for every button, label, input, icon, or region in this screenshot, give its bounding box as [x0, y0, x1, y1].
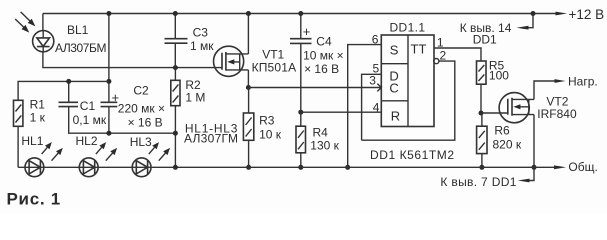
- svg-text:3: 3: [369, 74, 376, 88]
- capacitor C3: [165, 39, 188, 44]
- node VT1 source: [246, 85, 251, 90]
- svg-text:VT1: VT1: [262, 48, 284, 62]
- wire C1 bottom: [69, 107, 176, 134]
- svg-text:220 мк ×: 220 мк ×: [118, 102, 165, 116]
- resistor R1: [14, 100, 23, 126]
- wire C1 top: [68, 81, 70, 102]
- +12 V arrow: [556, 12, 568, 16]
- LED HL2: [79, 142, 117, 177]
- svg-text:DD1: DD1: [473, 33, 497, 47]
- svg-text:10 к: 10 к: [259, 128, 282, 142]
- svg-text:1 М: 1 М: [185, 91, 205, 105]
- svg-text:DD1.1: DD1.1: [390, 21, 426, 35]
- svg-text:DD1 К561ТМ2: DD1 К561ТМ2: [370, 148, 454, 162]
- node VT2 source ground: [532, 165, 537, 170]
- svg-text:10 мк ×: 10 мк ×: [303, 49, 344, 63]
- svg-text:× 16 В: × 16 В: [304, 62, 339, 76]
- wire R3 bottom: [248, 140, 250, 167]
- wire R1 top line: [18, 81, 109, 100]
- node C2 bottom: [106, 131, 111, 136]
- node rail C3: [173, 11, 178, 16]
- node rail VT1: [246, 11, 251, 16]
- wire R2 bottom: [174, 106, 176, 168]
- wire C4 to R input: [301, 111, 382, 113]
- node rail-C2: [106, 11, 111, 16]
- resistor R5: [477, 61, 487, 84]
- wire C3 bottom: [174, 43, 176, 67]
- node rail pin14: [531, 11, 536, 16]
- wire to pin 7: [524, 167, 534, 180]
- wire VT2 source: [533, 115, 535, 168]
- wire S to ground: [348, 45, 382, 168]
- svg-text:100: 100: [489, 69, 509, 83]
- wire R5 bottom: [480, 84, 482, 113]
- svg-text:R6: R6: [494, 124, 510, 138]
- svg-text:C: C: [389, 81, 398, 96]
- wire +12 to C2 plus: [108, 14, 110, 103]
- dynamic input chevron pin 3: [377, 84, 381, 92]
- node R4 ground: [298, 165, 303, 170]
- transistor VT2: [499, 93, 534, 123]
- node R3 ground: [246, 165, 251, 170]
- node S ground: [345, 165, 350, 170]
- wire VT1 drain: [247, 14, 249, 54]
- svg-text:HL1: HL1: [21, 134, 43, 148]
- wire C2 bottom: [108, 107, 110, 134]
- node rail C4: [298, 11, 303, 16]
- svg-text:R4: R4: [313, 126, 329, 140]
- capacitor C4: [290, 14, 312, 113]
- op-amp/flip-flop DD1.1 box: [381, 35, 434, 127]
- svg-text:130 к: 130 к: [310, 139, 339, 153]
- svg-text:× 16 В: × 16 В: [128, 116, 163, 130]
- capacitor C2: [101, 102, 118, 106]
- svg-text:+: +: [303, 24, 311, 39]
- svg-text:TT: TT: [411, 42, 427, 57]
- svg-text:+12 В: +12 В: [569, 7, 605, 22]
- node C2 top tee: [106, 79, 111, 84]
- wire BL1 bottom to VT1 gate: [43, 52, 222, 68]
- LED HL1: [25, 142, 63, 177]
- svg-text:S: S: [390, 43, 399, 58]
- resistor R2: [171, 68, 180, 106]
- common arrow: [554, 165, 566, 169]
- node R5 R6 gate: [479, 111, 484, 116]
- wire D input: [362, 74, 382, 140]
- wire top +12V rail: [43, 13, 556, 15]
- svg-text:820 к: 820 к: [493, 138, 522, 152]
- wire R6 bottom: [481, 154, 483, 168]
- svg-text:АЛ307ГМ: АЛ307ГМ: [184, 132, 238, 146]
- resistor R6: [477, 113, 487, 154]
- wire to pin 14: [523, 14, 533, 28]
- svg-text:C4: C4: [316, 35, 332, 49]
- svg-text:R1: R1: [30, 98, 46, 112]
- inverter bubble pin 2: [434, 59, 439, 64]
- svg-text:Нагр.: Нагр.: [568, 75, 598, 89]
- svg-text:BL1: BL1: [67, 23, 89, 37]
- svg-text:0,1 мк: 0,1 мк: [73, 113, 107, 127]
- svg-text:C2: C2: [133, 84, 149, 98]
- svg-text:HL2: HL2: [76, 134, 98, 148]
- wire R1 bottom: [17, 126, 19, 167]
- svg-text:К выв. 7 DD1: К выв. 7 DD1: [440, 175, 516, 189]
- LED HL3: [132, 142, 170, 177]
- wire R4 bottom: [300, 153, 302, 168]
- svg-text:IRF840: IRF840: [537, 107, 577, 121]
- wire source to C input: [248, 87, 381, 89]
- pin7 arrow: [518, 179, 530, 183]
- capacitor C1: [59, 102, 79, 106]
- node R6 ground: [479, 165, 484, 170]
- wire bottom common rail: [18, 166, 554, 168]
- transistor VT1: [214, 46, 249, 76]
- svg-text:Рис. 1: Рис. 1: [7, 190, 61, 209]
- wire VT2 drain to load: [534, 81, 555, 99]
- wire feedback Q2 to D: [362, 61, 455, 140]
- wire pin1 to R5: [434, 48, 481, 61]
- svg-text:C1: C1: [80, 99, 96, 113]
- svg-text:1 к: 1 к: [30, 111, 46, 125]
- pin14 arrow: [517, 26, 529, 30]
- load arrow: [555, 79, 566, 83]
- svg-text:HL3: HL3: [130, 135, 152, 149]
- photodiode BL1: [15, 12, 54, 52]
- svg-text:КП501А: КП501А: [252, 61, 297, 75]
- wire gate VT2: [481, 112, 508, 114]
- svg-text:R: R: [391, 109, 400, 124]
- wire VT1 source: [247, 70, 249, 88]
- svg-text:4: 4: [373, 101, 380, 115]
- svg-text:1 мк: 1 мк: [190, 39, 214, 53]
- svg-text:C3: C3: [193, 26, 209, 40]
- node R2 C1 bottom: [173, 131, 178, 136]
- svg-text:Общ.: Общ.: [568, 160, 597, 174]
- resistor R4: [296, 112, 306, 153]
- wire C3 top: [174, 14, 176, 39]
- svg-text:R3: R3: [259, 114, 275, 128]
- node C4 R4: [298, 110, 303, 115]
- resistor R3: [243, 88, 253, 141]
- wire BL1 top: [42, 14, 44, 32]
- node HL3 R2 ground: [173, 165, 178, 170]
- svg-text:АЛ307БМ: АЛ307БМ: [55, 41, 107, 55]
- node gate line C3 R2: [173, 65, 178, 70]
- node C1 top: [66, 79, 71, 84]
